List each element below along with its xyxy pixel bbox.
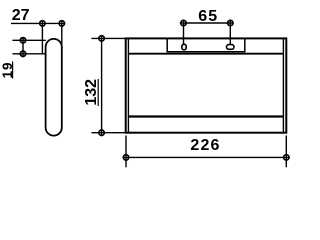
front view: inner left vertical — [127, 38, 129, 132]
svg-text:226: 226 — [190, 137, 220, 154]
svg-text:132: 132 — [83, 79, 100, 106]
dim 65: left dot — [181, 20, 186, 25]
dim 65: left extension line — [183, 20, 185, 44]
dim 27: right extension line — [61, 20, 63, 47]
dim 19: label underline — [12, 62, 14, 79]
side view: wall plate back line + dim-27 left extension line — [41, 20, 43, 53]
dim 226: left dot — [123, 155, 128, 160]
side view: wall plate bottom edge / dim-19 bottom extension line — [12, 53, 45, 55]
dim 65: dimension line — [180, 22, 234, 24]
svg-text:65: 65 — [198, 8, 218, 25]
svg-text:27: 27 — [12, 7, 30, 24]
dim 19: dimension line — [22, 37, 24, 57]
front view: outer rectangle — [126, 38, 287, 132]
dim 132: label underline — [97, 79, 99, 106]
dim 226: right extension line — [285, 136, 287, 168]
dim 226: left extension line — [125, 136, 127, 168]
svg-text:19: 19 — [0, 62, 15, 79]
dim 132: top extension line — [91, 37, 127, 39]
dim 19: bottom dot — [20, 51, 25, 56]
front view: lower rail line — [128, 115, 283, 117]
side view: wall plate top edge / dim-19 top extension line — [12, 39, 45, 41]
dim 65: right extension line — [229, 20, 231, 45]
front view: mounting plate outline — [167, 38, 245, 51]
front view: right mounting slot — [227, 45, 235, 50]
dim 27: left dot — [40, 21, 45, 26]
dim 65: right dot — [228, 20, 233, 25]
front view: inner top horizontal line — [128, 53, 283, 55]
dim 132: top dot — [99, 36, 104, 41]
dim 27: right dot — [59, 21, 64, 26]
front view: left mounting slot — [182, 44, 186, 50]
side view: ring stadium outline — [46, 39, 62, 136]
dim 132: dimension line — [101, 35, 103, 136]
dim 132: bottom extension line — [91, 132, 127, 134]
dim 226: right dot — [284, 155, 289, 160]
dim 226: dimension line — [123, 156, 290, 158]
dim 27: dimension line — [11, 22, 65, 24]
dim 19: top dot — [20, 38, 25, 43]
dim 132: bottom dot — [99, 130, 104, 135]
front view: inner right vertical — [282, 38, 284, 132]
